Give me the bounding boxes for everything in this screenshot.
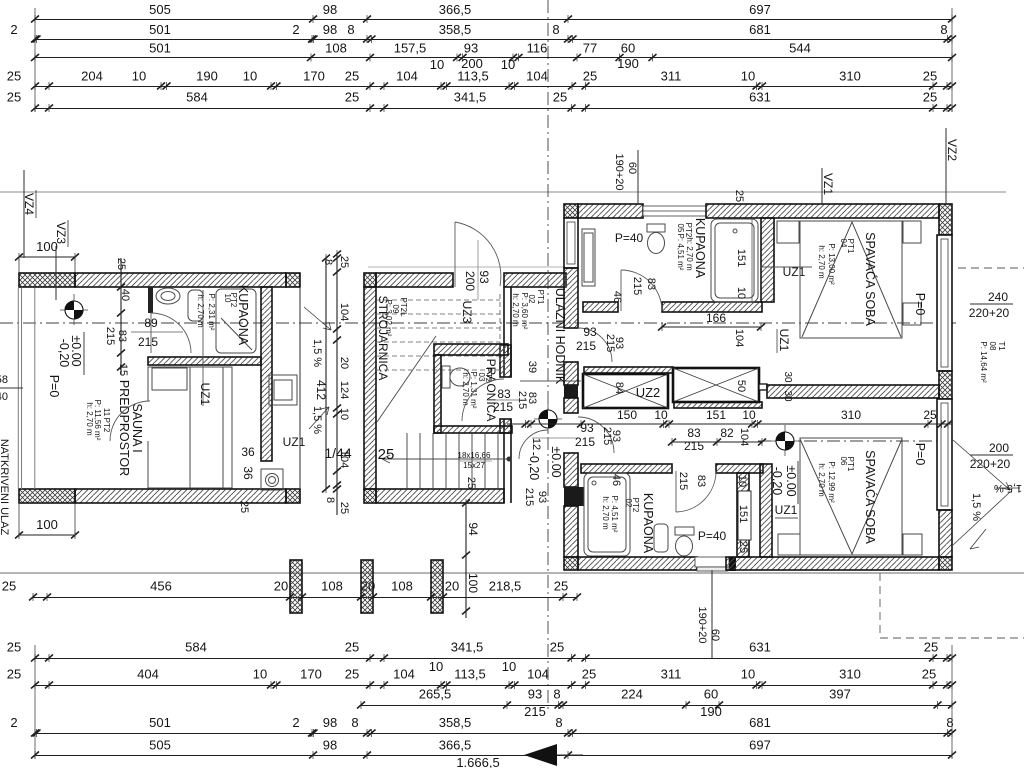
svg-text:358,5: 358,5 [439, 22, 472, 37]
upper inner wall kupaona-bedroom [761, 218, 774, 302]
right building top wall east part [706, 204, 939, 218]
middle building top wall right part [504, 273, 566, 287]
svg-text:93: 93 [528, 687, 542, 702]
svg-text:104: 104 [526, 69, 548, 84]
entry corner block [729, 557, 736, 571]
svg-text:116: 116 [527, 41, 548, 56]
svg-text:584: 584 [185, 640, 207, 655]
dim row bottom C (25 404 10 170 25 104 10 113,5 10 104 25 311 10 310 25) [7, 659, 956, 689]
lower inner wall kupaona-bedroom [760, 464, 772, 557]
svg-text:200: 200 [989, 441, 1009, 455]
svg-text:h: 2,70 m: h: 2,70 m [85, 402, 94, 436]
svg-text:25: 25 [2, 579, 16, 594]
svg-text:h: 2,70 m: h: 2,70 m [196, 294, 205, 328]
svg-text:NATKRIVENI ULAZ: NATKRIVENI ULAZ [0, 439, 10, 536]
svg-text:46: 46 [611, 291, 623, 303]
svg-text:220+20: 220+20 [969, 306, 1010, 320]
shaft box right with X [673, 368, 759, 402]
svg-text:681: 681 [749, 715, 771, 730]
stairwell east wall double line [504, 287, 511, 503]
svg-text:190: 190 [196, 69, 218, 84]
praonica bottom wall [434, 426, 512, 433]
svg-text:36: 36 [241, 466, 255, 480]
svg-text:KUPAONA: KUPAONA [693, 218, 707, 279]
upper kupaona bottom wall east [662, 302, 762, 312]
dim row bottom A (25 456 20 108 20 108 20 218,5 25) [2, 579, 581, 602]
svg-text:104: 104 [733, 329, 745, 347]
vent stack VZ1 [821, 168, 835, 204]
right building top wall corner crosshatch NE [939, 204, 952, 235]
right building bottom wall west [578, 557, 697, 570]
svg-text:h: 2,70 m: h: 2,70 m [817, 463, 826, 497]
svg-text:366,5: 366,5 [439, 2, 472, 17]
svg-text:02: 02 [624, 499, 633, 508]
entry door arc to right building [519, 430, 548, 459]
svg-text:311: 311 [661, 667, 682, 682]
lower kupaona sink [654, 524, 668, 552]
svg-text:±0.00: ±0.00 [549, 446, 563, 477]
svg-text:544: 544 [789, 41, 811, 56]
svg-text:8: 8 [351, 715, 358, 730]
lower bedroom bed [800, 438, 902, 555]
upper bedroom nightstands [777, 221, 921, 243]
svg-text:10: 10 [243, 69, 257, 84]
svg-text:681: 681 [749, 22, 771, 37]
svg-text:218,5: 218,5 [489, 579, 522, 594]
right building west wall segment 4 [564, 453, 578, 487]
survey point middle [534, 403, 562, 434]
svg-text:404: 404 [137, 667, 159, 682]
svg-text:20: 20 [338, 357, 350, 369]
svg-text:P: 2,31 m²: P: 2,31 m² [207, 294, 216, 331]
svg-text:265,5: 265,5 [419, 687, 452, 702]
svg-text:18x16,66: 18x16,66 [458, 451, 491, 460]
svg-text:08: 08 [988, 342, 997, 351]
svg-text:-0,20: -0,20 [57, 339, 71, 368]
room label spavaca soba upper [817, 232, 878, 326]
svg-text:215: 215 [601, 427, 613, 445]
right extension line of top dims [951, 8, 953, 112]
svg-text:1.666,5: 1.666,5 [456, 755, 499, 768]
svg-text:25: 25 [550, 640, 564, 655]
left kupaona sink [156, 288, 180, 304]
vertical dim 94 100 below middle building [462, 499, 470, 618]
svg-text:-0,20: -0,20 [527, 452, 541, 481]
svg-text:697: 697 [749, 2, 771, 17]
svg-text:124: 124 [338, 381, 350, 399]
svg-text:11: 11 [102, 408, 111, 417]
svg-text:UZ1: UZ1 [198, 383, 212, 406]
porch column crosshatch 3 [431, 560, 443, 613]
svg-text:8: 8 [946, 715, 953, 730]
svg-text:104: 104 [396, 69, 418, 84]
svg-text:77: 77 [583, 41, 597, 56]
hodnik threshold line [520, 380, 581, 382]
svg-text:501: 501 [149, 22, 171, 37]
vent stack VZ2 [945, 128, 959, 204]
divider strip B hatched [674, 402, 762, 408]
svg-text:VZ4: VZ4 [22, 193, 36, 215]
left kupaona wc [188, 290, 203, 321]
svg-text:05: 05 [676, 224, 685, 233]
svg-text:104: 104 [338, 303, 350, 321]
svg-text:UZ1: UZ1 [777, 329, 791, 352]
lower bedroom side table [903, 534, 922, 555]
bottom wall entry opening [695, 557, 729, 571]
survey point left +-0.00 -0.20 [60, 294, 88, 325]
stair flight above dashed [376, 294, 500, 370]
svg-text:P=0: P=0 [47, 375, 61, 398]
left building east wall [261, 287, 272, 461]
svg-text:UZ1: UZ1 [283, 435, 306, 449]
right building west wall segment 1 [564, 268, 578, 328]
slope arrow upper 1,5% [304, 307, 331, 330]
svg-text:25: 25 [338, 502, 350, 514]
svg-text:104: 104 [527, 667, 549, 682]
svg-text:501: 501 [149, 41, 171, 56]
praonica door arc [462, 379, 504, 421]
svg-text:93: 93 [536, 491, 548, 503]
svg-text:190: 190 [617, 56, 639, 71]
survey point lower right [771, 425, 799, 456]
svg-text:46: 46 [610, 474, 622, 486]
svg-text:83: 83 [497, 387, 511, 401]
svg-text:25: 25 [737, 541, 749, 553]
dim 100 bottom left [15, 517, 79, 539]
lower kupaona top wall east [716, 464, 763, 473]
svg-text:P: 3,60 m²: P: 3,60 m² [520, 293, 529, 330]
room label ulazni hodnik [511, 288, 567, 385]
svg-text:89: 89 [144, 316, 158, 330]
svg-text:25: 25 [7, 640, 21, 655]
middle building bottom wall [376, 489, 504, 503]
svg-text:505: 505 [149, 738, 171, 753]
svg-text:104: 104 [393, 667, 415, 682]
svg-text:h: 2,70 m: h: 2,70 m [601, 496, 610, 530]
svg-text:108: 108 [325, 41, 347, 56]
dim row bottom B (25 584 25 341,5 25 631 25) [7, 640, 956, 663]
svg-text:PT1: PT1 [536, 290, 545, 305]
svg-text:ULAZNI HODNIK: ULAZNI HODNIK [553, 288, 567, 385]
right building west wall window with frame [564, 218, 578, 268]
svg-text:25: 25 [378, 446, 395, 463]
svg-text:151: 151 [706, 408, 726, 422]
right building bottom wall east [726, 557, 939, 570]
vent stack VZ3 [54, 220, 68, 300]
svg-text:25: 25 [554, 579, 568, 594]
svg-text:83: 83 [687, 426, 701, 440]
room label praonica [461, 359, 498, 422]
svg-text:220+20: 220+20 [970, 457, 1011, 471]
svg-text:240: 240 [988, 290, 1008, 304]
svg-text:h: 2,70 m: h: 2,70 m [511, 293, 520, 327]
svg-text:310: 310 [841, 408, 861, 422]
svg-text:697: 697 [749, 738, 771, 753]
svg-text:04: 04 [839, 239, 848, 248]
svg-text:104: 104 [738, 428, 750, 446]
svg-text:25: 25 [465, 477, 477, 489]
svg-text:25: 25 [345, 69, 359, 84]
upper kupaona bottom wall west [583, 302, 618, 312]
svg-text:10: 10 [338, 408, 350, 420]
svg-text:50: 50 [735, 380, 747, 392]
svg-text:06: 06 [839, 457, 848, 466]
middle building west wall [364, 287, 376, 489]
svg-text:25: 25 [923, 69, 937, 84]
svg-text:25: 25 [553, 90, 567, 105]
svg-text:98: 98 [323, 738, 337, 753]
west wall solid block lower [564, 487, 584, 506]
left extension line of bottom dims [34, 645, 36, 758]
upper kupaona sink counter [582, 229, 595, 286]
svg-text:P: 14,64 m²: P: 14,64 m² [979, 341, 988, 383]
site boundary line upper [0, 191, 1006, 193]
section direction triangle [524, 744, 557, 766]
svg-text:215: 215 [523, 488, 535, 506]
horizontal centerline axis [0, 322, 957, 324]
svg-text:VZ3: VZ3 [54, 222, 68, 244]
svg-text:341,5: 341,5 [451, 640, 484, 655]
vent line 60/190+20 top [613, 150, 638, 204]
middle building bottom wall corner crosshatch [364, 489, 376, 503]
svg-text:501: 501 [149, 715, 171, 730]
upper kupaona toilet [647, 224, 665, 254]
svg-text:215: 215 [631, 277, 643, 295]
svg-text:584: 584 [186, 90, 208, 105]
svg-text:190+20: 190+20 [696, 606, 708, 643]
svg-text:10: 10 [742, 408, 756, 422]
sub dim chain 83 82 y442 [668, 438, 766, 446]
svg-text:P: 4,51 m²: P: 4,51 m² [610, 496, 619, 533]
svg-text:25: 25 [238, 501, 250, 513]
svg-text:P: 13,00 m²: P: 13,00 m² [827, 243, 836, 285]
svg-text:60: 60 [621, 41, 635, 56]
right building west wall segment 5 [564, 506, 578, 557]
svg-text:93: 93 [477, 270, 491, 284]
svg-text:SAUNA I: SAUNA I [130, 403, 144, 452]
svg-text:215: 215 [138, 335, 158, 349]
svg-text:83: 83 [645, 278, 657, 290]
lower door frame white [738, 491, 751, 540]
room label spavaca soba lower [817, 450, 878, 544]
praonica east wall blocks [500, 345, 511, 377]
svg-text:10: 10 [501, 57, 515, 72]
svg-text:83: 83 [695, 475, 707, 487]
svg-text:58: 58 [0, 374, 8, 386]
svg-text:412: 412 [314, 380, 328, 400]
svg-text:10: 10 [502, 659, 516, 674]
divider strip A hatched [584, 367, 673, 373]
dim extension line x478 [477, 240, 479, 300]
svg-text:25: 25 [924, 640, 938, 655]
east wall hatch lower [939, 510, 952, 557]
middle building top wall corner crosshatch [364, 273, 376, 287]
upper bedroom bed [800, 221, 902, 338]
svg-text:25: 25 [923, 90, 937, 105]
svg-text:P: 12,99 m²: P: 12,99 m² [827, 461, 836, 503]
svg-text:UZ1: UZ1 [775, 503, 798, 517]
east wall window upper [937, 235, 952, 371]
svg-text:±0.00: ±0.00 [784, 465, 798, 496]
window dim 240 220+20 right [969, 290, 1013, 320]
svg-text:UZ3: UZ3 [460, 301, 474, 324]
svg-text:397: 397 [829, 687, 851, 702]
svg-text:215: 215 [524, 704, 546, 719]
svg-text:h: 2,70 m: h: 2,70 m [817, 245, 826, 279]
svg-text:215: 215 [677, 472, 689, 490]
right building top wall window opening [643, 206, 706, 216]
dim 100 top left [15, 239, 79, 261]
left building top wall hatched [75, 273, 286, 287]
svg-text:39: 39 [526, 361, 538, 373]
svg-text:25: 25 [7, 90, 21, 105]
lower bedroom nightstands [778, 534, 800, 555]
room label sauna i predprostor [85, 380, 144, 476]
svg-text:310: 310 [839, 667, 861, 682]
svg-text:98: 98 [323, 2, 337, 17]
svg-text:h: 2,70 m: h: 2,70 m [461, 372, 470, 406]
svg-text:25: 25 [923, 408, 937, 422]
vertical centerline axis [547, 0, 549, 712]
svg-text:25: 25 [7, 667, 21, 682]
svg-text:PREDPROSTOR: PREDPROSTOR [117, 380, 131, 476]
terrace dashed outline lower [880, 573, 1024, 638]
svg-text:SPAVAĆA SOBA: SPAVAĆA SOBA [863, 450, 878, 544]
svg-text:8: 8 [347, 22, 354, 37]
under stair diagonal [377, 336, 436, 422]
svg-text:113,5: 113,5 [457, 69, 489, 84]
svg-text:60: 60 [626, 162, 638, 174]
svg-text:341,5: 341,5 [454, 90, 487, 105]
svg-text:215: 215 [104, 327, 116, 345]
vent line 60/190+20 bottom [696, 570, 721, 658]
UZ1 leader line [202, 290, 204, 406]
svg-text:8: 8 [553, 687, 560, 702]
eave line above entrance [368, 266, 564, 268]
svg-text:12: 12 [530, 438, 542, 450]
praonica west wall [434, 355, 441, 433]
svg-text:310: 310 [839, 69, 861, 84]
dim 166 with line [658, 323, 765, 331]
svg-text:8: 8 [555, 715, 562, 730]
svg-text:2: 2 [292, 22, 299, 37]
window dim 200 220+20 right [970, 441, 1013, 471]
svg-text:PT2: PT2 [102, 418, 111, 433]
svg-text:170: 170 [303, 69, 325, 84]
left building east facade edge line [299, 287, 301, 489]
praonica toilet [442, 366, 470, 388]
terrace dashed outline upper right [958, 267, 1024, 269]
svg-text:VZ1: VZ1 [821, 173, 835, 195]
right building west wall segment 3 [564, 398, 578, 413]
svg-text:631: 631 [749, 90, 771, 105]
svg-text:108: 108 [321, 579, 343, 594]
porch column crosshatch 1 [290, 560, 302, 613]
east wall corner crosshatch SE [939, 557, 952, 570]
left building west glazed wall lines [18, 288, 35, 489]
svg-text:84: 84 [613, 382, 625, 394]
svg-text:15x27: 15x27 [463, 461, 485, 470]
svg-text:10: 10 [132, 69, 146, 84]
svg-text:10: 10 [735, 287, 747, 299]
svg-text:-0,20: -0,20 [770, 467, 784, 496]
svg-text:215: 215 [604, 334, 616, 352]
svg-text:25: 25 [583, 69, 597, 84]
right building west wall segment 2 [564, 362, 578, 385]
svg-text:SPAVAĆA SOBA: SPAVAĆA SOBA [863, 232, 878, 326]
svg-text:25: 25 [345, 640, 359, 655]
svg-text:98: 98 [323, 22, 337, 37]
vertical dim overall 412 [322, 254, 330, 493]
svg-text:10: 10 [736, 475, 748, 487]
lower kupaona top wall west [581, 464, 672, 473]
slope arrow lower 1,5% [309, 407, 329, 429]
west wall corner crosshatch SW [564, 557, 578, 570]
svg-text:108: 108 [391, 579, 413, 594]
svg-text:25: 25 [338, 256, 350, 268]
door UZ3 arc in top wall [455, 222, 501, 287]
svg-text:P: 3,02 m²: P: 3,02 m² [384, 300, 393, 337]
svg-text:10: 10 [654, 408, 668, 422]
svg-text:1,5 %: 1,5 % [311, 339, 323, 367]
svg-text:204: 204 [81, 69, 103, 84]
divider connector [759, 384, 767, 390]
svg-text:150: 150 [617, 408, 637, 422]
svg-text:VZ2: VZ2 [945, 139, 959, 161]
svg-text:2: 2 [10, 22, 17, 37]
svg-text:20: 20 [274, 579, 288, 594]
svg-text:25: 25 [345, 667, 359, 682]
left kupaona bottom wall [148, 357, 261, 365]
left building bottom wall corner crosshatch right [286, 489, 300, 503]
svg-text:104: 104 [338, 450, 350, 468]
vertical dim chain x337 (25 104 20 124 10 104 25) [333, 250, 341, 515]
right extension line of bottom dims [951, 645, 953, 758]
svg-text:456: 456 [150, 579, 172, 594]
svg-text:215: 215 [493, 400, 513, 414]
upper kupaona door arc [621, 270, 662, 311]
interior dim chain y424 (150 10 151 10 310 25) [507, 420, 952, 428]
west wall solid block mid [564, 385, 578, 398]
svg-text:2: 2 [292, 715, 299, 730]
svg-text:60: 60 [709, 629, 721, 641]
svg-text:1,5 %: 1,5 % [970, 493, 982, 521]
svg-text:157,5: 157,5 [394, 41, 427, 56]
middle building top wall left part [376, 273, 453, 287]
lower kupaona bathtub [584, 473, 630, 556]
dim row top 1 (505 98 366,5 697) [31, 2, 956, 23]
interior dim line vertical x121 [117, 258, 125, 375]
west wall door gap upper arc [578, 328, 612, 362]
svg-text:P=40: P=40 [615, 231, 644, 245]
right building east wall crosshatch top [939, 234, 952, 236]
svg-text:UZ2: UZ2 [636, 385, 661, 400]
svg-text:358,5: 358,5 [439, 715, 472, 730]
dim row top 5 (25 584 25 341,5 25 631 25) [7, 90, 956, 113]
lower kupaona east wall [737, 473, 749, 557]
svg-text:25: 25 [345, 90, 359, 105]
svg-text:25: 25 [733, 190, 745, 202]
svg-text:215: 215 [576, 339, 596, 353]
vent stack VZ4 [22, 170, 36, 258]
left building bottom wall pier crosshatch left [19, 489, 75, 503]
svg-text:93: 93 [464, 41, 478, 56]
shaft box UZ2 left with X [583, 374, 668, 408]
left building bottom wall hatched [75, 489, 286, 503]
dim row top 3 (501 108 157,5 93 116 77 60 544) [31, 41, 956, 73]
svg-text:166: 166 [706, 311, 726, 325]
svg-text:25: 25 [582, 667, 596, 682]
